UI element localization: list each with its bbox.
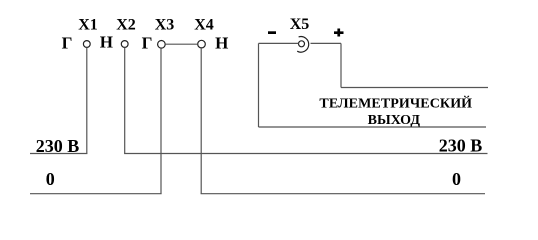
svg-text:Г: Г bbox=[62, 34, 73, 53]
wire X5 plus lead bbox=[311, 42, 342, 44]
terminal X1 bbox=[83, 41, 90, 48]
wire X5 minus down bbox=[258, 43, 260, 127]
svg-text:Н: Н bbox=[100, 33, 113, 52]
wire X2 down bbox=[124, 48, 126, 154]
svg-text:X2: X2 bbox=[116, 17, 136, 34]
wire 230V right bbox=[124, 153, 487, 155]
terminal X2 bbox=[121, 41, 128, 48]
svg-text:0: 0 bbox=[46, 169, 55, 189]
terminal X3 bbox=[158, 41, 166, 49]
wire bridge X3-X4 bbox=[165, 43, 197, 45]
svg-text:X5: X5 bbox=[290, 16, 310, 33]
polarity minus sign bbox=[268, 31, 276, 34]
wire 0 left bbox=[30, 193, 162, 195]
svg-text:ТЕЛЕМЕТРИЧЕСКИЙ: ТЕЛЕМЕТРИЧЕСКИЙ bbox=[319, 95, 472, 112]
svg-text:Г: Г bbox=[142, 34, 153, 53]
wire telemetry minus out bbox=[259, 126, 487, 128]
terminal X4 bbox=[198, 40, 206, 48]
wire 0 right bbox=[201, 193, 485, 195]
svg-text:X4: X4 bbox=[194, 17, 214, 34]
terminal X5 socket arc bbox=[297, 37, 309, 53]
wire 230V left bbox=[30, 153, 87, 155]
wire X3 down bbox=[160, 48, 162, 194]
svg-text:Н: Н bbox=[215, 34, 228, 53]
svg-text:0: 0 bbox=[452, 169, 461, 189]
svg-text:ВЫХОД: ВЫХОД bbox=[368, 113, 421, 128]
wire X5 minus lead bbox=[259, 42, 299, 44]
svg-text:230 В: 230 В bbox=[439, 136, 483, 156]
wire telemetry plus out bbox=[341, 87, 488, 89]
svg-text:230 В: 230 В bbox=[36, 136, 80, 156]
svg-text:X1: X1 bbox=[78, 17, 98, 34]
polarity plus sign bbox=[334, 29, 344, 37]
wire X4 down bbox=[200, 48, 202, 194]
wire X1 down bbox=[86, 48, 88, 154]
svg-text:X3: X3 bbox=[155, 17, 175, 34]
terminal X5 socket circle bbox=[299, 41, 305, 47]
wire X5 plus down bbox=[340, 43, 342, 87]
